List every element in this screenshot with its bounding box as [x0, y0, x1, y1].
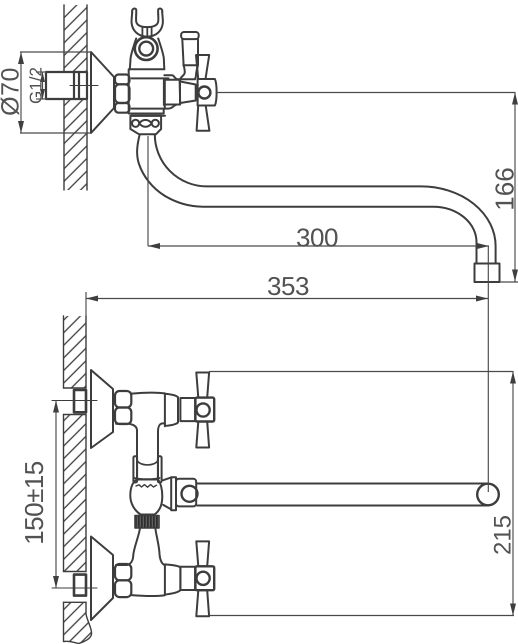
top handle hub (bottom view) — [195, 398, 214, 422]
353 arrows — [86, 296, 98, 302]
dim G1/2 line — [42, 72, 44, 99]
150±15 arrows — [53, 401, 59, 413]
handle top arm (top view, edge-on) — [196, 55, 209, 79]
handle hub circle — [198, 87, 210, 99]
dim 166 top extension from handle hub — [216, 92, 516, 94]
dim 300 extension (spout axis) — [147, 136, 149, 246]
top bonnet — [165, 394, 178, 426]
holder ring (top view) — [135, 37, 158, 60]
main body (top view) — [129, 69, 164, 113]
spout nut block with circle — [176, 479, 196, 507]
dim 215 line — [512, 372, 514, 616]
166 arrows — [512, 93, 518, 105]
svg-text:300: 300 — [296, 223, 338, 253]
svg-text:353: 353 — [267, 271, 309, 301]
wall (bottom view) hatched strip — [64, 316, 92, 644]
spout nozzle connector (bottom view) — [163, 477, 171, 509]
svg-text:150±15: 150±15 — [19, 461, 49, 545]
lower handle hub (bottom view) — [195, 566, 214, 590]
G1/2 inlet pipe through wall (top view) — [46, 72, 87, 99]
wall (top view) hatched strip — [64, 5, 87, 190]
decorative collar (top view) — [130, 116, 161, 135]
cross handle hub (top view) — [198, 79, 217, 106]
sphere joint serration — [136, 485, 157, 488]
lower cartridge — [180, 567, 195, 590]
knurled diverter ring — [135, 516, 159, 529]
svg-text:215: 215 — [490, 515, 517, 555]
wall edge lines (bottom view) — [64, 316, 92, 644]
dimension texts — [0, 67, 518, 555]
long spout tube (bottom view) — [197, 483, 488, 485]
top cartridge — [180, 398, 195, 421]
mixer sphere — [130, 480, 162, 515]
upper body block (top view) — [130, 39, 136, 70]
dim 166 bottom extension from aerator — [500, 281, 518, 283]
lower valve body (bottom view) — [131, 565, 165, 596]
Ø70 arrows — [18, 52, 24, 64]
union collar under top valve — [137, 456, 158, 478]
top inlet pipe (bottom view) — [74, 390, 86, 412]
top valve body (bottom view) — [131, 393, 165, 427]
bonnet between body and handle (top view) — [180, 82, 196, 104]
215 arrows — [510, 372, 516, 384]
dim Ø70 line — [20, 52, 22, 133]
dim 166 line — [514, 93, 516, 282]
wall edge lines (top view) — [64, 5, 87, 190]
spout S-curve (top view) — [137, 135, 476, 264]
dim 150±15 line — [55, 401, 57, 589]
dim 215 top extension (handle top) — [209, 371, 514, 373]
top handle hub circle — [197, 403, 210, 416]
dim 353 line — [86, 298, 488, 300]
escutcheon cone (top view) — [91, 52, 114, 133]
dim Ø70 extension lines — [20, 51, 91, 53]
top hex nut (bottom view) — [115, 391, 131, 424]
bottom inlet centerline — [52, 587, 97, 589]
lower neck tube — [116, 528, 140, 565]
G1/2 arrows — [40, 72, 45, 82]
hex nut (top view) — [115, 75, 130, 113]
dim 353 left extension (wall face) — [85, 292, 87, 318]
lower handle lower arm — [196, 590, 209, 616]
bottom inlet pipe (bottom view) — [74, 575, 86, 596]
bottom escutcheon cone (bottom view) — [91, 537, 113, 621]
top escutcheon cone (bottom view) — [91, 370, 113, 448]
spout round tip — [477, 484, 499, 506]
dim 300 line — [148, 245, 489, 247]
top handle lower arm — [196, 422, 209, 448]
svg-text:166: 166 — [490, 167, 518, 210]
handle bottom arm (top view, edge-on) — [197, 106, 210, 131]
pipe centerline — [70, 85, 98, 87]
top inlet centerline — [52, 400, 97, 402]
lower bonnet — [165, 564, 181, 594]
base band under body — [132, 115, 166, 117]
lower handle upper arm — [196, 541, 209, 566]
diverter knob (top view) — [181, 32, 199, 39]
bottom hex nut (bottom view) — [115, 564, 131, 597]
right body block (top view) — [164, 79, 180, 105]
dim 215 bottom extension (handle bottom) — [210, 615, 514, 617]
svg-text:Ø70: Ø70 — [0, 67, 25, 116]
top handle upper arm — [196, 373, 209, 398]
lower handle hub circle — [197, 572, 210, 585]
extension through aerator down to bottom-view spout tip — [487, 246, 489, 492]
shower-hook fork (top view) — [132, 12, 163, 36]
300 arrows — [148, 243, 160, 249]
svg-text:G1/2: G1/2 — [27, 67, 46, 104]
aerator tip (top view) — [475, 264, 500, 283]
fork ribs — [142, 27, 151, 37]
